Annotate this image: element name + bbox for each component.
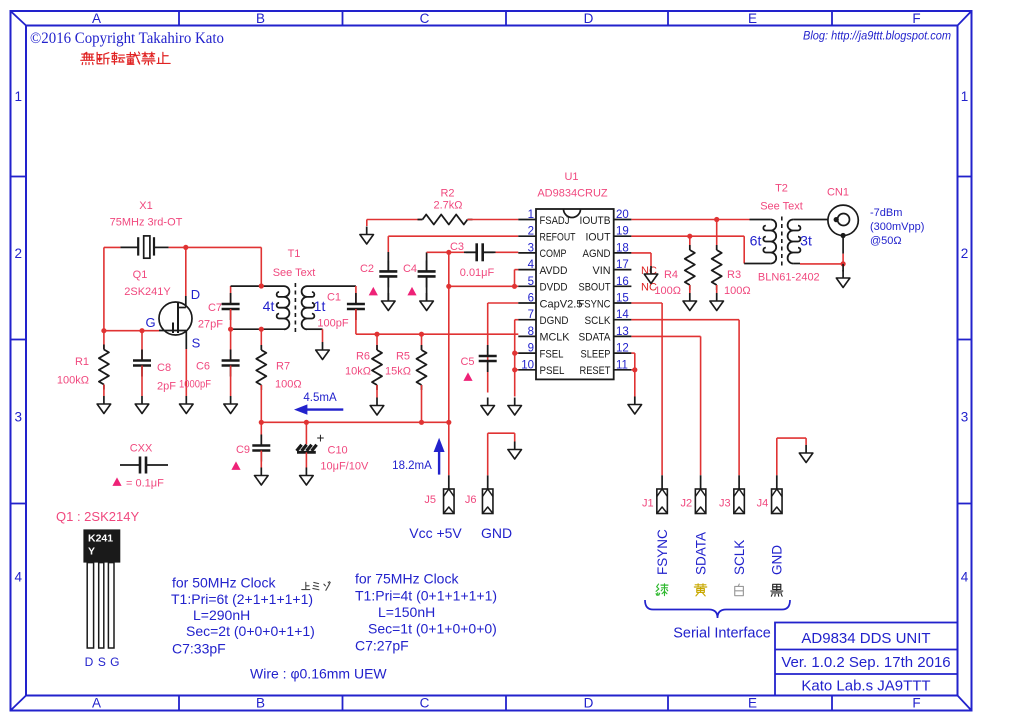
transformer T2 secondary 3t — [788, 220, 829, 264]
svg-text:3: 3 — [961, 410, 969, 425]
svg-text:16: 16 — [616, 276, 629, 288]
ground CN1 — [836, 270, 850, 288]
svg-text:100Ω: 100Ω — [724, 285, 751, 297]
connector J5 — [444, 489, 455, 514]
svg-text:PSEL: PSEL — [540, 365, 565, 377]
svg-text:SDATA: SDATA — [693, 532, 708, 575]
wire SDATA — [631, 336, 700, 475]
connector J3 — [734, 489, 745, 514]
svg-text:4: 4 — [14, 570, 22, 585]
resistor R6 — [372, 334, 382, 397]
svg-text:E: E — [748, 11, 757, 26]
svg-text:R5: R5 — [396, 351, 410, 363]
svg-text:U1: U1 — [564, 171, 578, 183]
triangle legend — [112, 477, 164, 489]
resistor R1 label — [57, 356, 89, 387]
wire DGND — [515, 320, 519, 397]
svg-text:27pF: 27pF — [198, 319, 223, 331]
wire FSYNC — [631, 303, 662, 475]
ground SLEEP-RESET — [628, 397, 642, 415]
triangle mark C2 — [369, 287, 378, 296]
resistor R7 — [256, 329, 266, 422]
svg-text:= 0.1μF: = 0.1μF — [126, 478, 164, 490]
svg-text:SDATA: SDATA — [579, 332, 612, 344]
svg-text:G: G — [145, 315, 155, 330]
connector J2 lead — [700, 475, 702, 489]
ground AGND — [644, 266, 658, 284]
node DVDD junction — [446, 284, 451, 289]
svg-text:X1: X1 — [139, 200, 152, 212]
svg-text:SLEEP: SLEEP — [581, 348, 611, 360]
wire crystal left — [104, 246, 121, 248]
wire IOUTB rail — [631, 219, 749, 221]
svg-text:RESET: RESET — [580, 365, 611, 377]
ground DGND — [508, 398, 522, 416]
svg-text:14: 14 — [616, 309, 629, 321]
svg-text:10μF/10V: 10μF/10V — [320, 461, 369, 473]
svg-text:Serial Interface: Serial Interface — [673, 626, 771, 642]
svg-text:C5: C5 — [460, 356, 474, 368]
svg-text:T1: T1 — [288, 248, 301, 260]
svg-text:3t: 3t — [800, 233, 812, 249]
capacitor C3 — [464, 243, 496, 261]
ground J6 — [508, 442, 522, 460]
node rail J5 — [446, 420, 451, 425]
svg-text:L=150nH: L=150nH — [378, 604, 435, 620]
svg-text:15: 15 — [616, 293, 629, 305]
wire CN1 shield down — [842, 236, 844, 254]
capacitor C1 label — [317, 292, 348, 330]
wire IOUT rail — [631, 235, 744, 237]
node R4 top junction — [687, 234, 692, 239]
node R5 junction — [419, 332, 424, 337]
svg-text:Q1 : 2SK214Y: Q1 : 2SK214Y — [56, 509, 139, 524]
ground Q1 source — [180, 396, 194, 414]
wire +5V vertical — [448, 252, 450, 422]
wire C3 to C4 — [427, 251, 449, 253]
svg-text:7: 7 — [528, 309, 534, 321]
wire J4 to ground — [777, 438, 806, 475]
capacitor C7 label — [198, 302, 223, 331]
resistor R4 label — [654, 269, 681, 297]
resistor R1 — [99, 331, 109, 396]
svg-text:Vcc +5V: Vcc +5V — [409, 525, 462, 541]
connector CN1 — [828, 205, 858, 238]
svg-text:2pF: 2pF — [157, 381, 176, 393]
svg-text:AD9834CRUZ: AD9834CRUZ — [537, 188, 608, 200]
svg-text:13: 13 — [616, 326, 629, 338]
svg-text:Kato Lab.s JA9TTT: Kato Lab.s JA9TTT — [801, 678, 930, 695]
svg-text:2: 2 — [14, 246, 22, 261]
svg-text:100kΩ: 100kΩ — [57, 375, 89, 387]
svg-text:IOUTB: IOUTB — [580, 215, 611, 227]
svg-text:J1: J1 — [642, 498, 654, 510]
svg-text:REFOUT: REFOUT — [540, 232, 576, 244]
svg-text:S: S — [192, 336, 201, 351]
svg-text:GND: GND — [770, 545, 785, 575]
node T1 top junction — [259, 283, 264, 288]
wire J5 — [448, 422, 450, 489]
node C3 junction — [446, 250, 451, 255]
svg-text:2: 2 — [528, 226, 534, 238]
wire CN1 shield red — [842, 254, 844, 264]
svg-text:6t: 6t — [750, 233, 762, 249]
svg-text:F: F — [912, 11, 920, 26]
svg-text:(300mVpp): (300mVpp) — [870, 221, 924, 233]
svg-text:5: 5 — [528, 276, 534, 288]
resistor R3 — [712, 220, 722, 294]
ground C5 — [481, 398, 495, 416]
svg-text:8: 8 — [528, 326, 534, 338]
svg-text:Wire : φ0.16mm UEW: Wire : φ0.16mm UEW — [250, 666, 387, 682]
svg-text:2.7kΩ: 2.7kΩ — [433, 200, 462, 212]
svg-text:AD9834 DDS UNIT: AD9834 DDS UNIT — [801, 630, 930, 647]
wire FSADJ rail right — [467, 219, 518, 221]
svg-text:R4: R4 — [664, 269, 678, 281]
svg-text:Blog: http://ja9ttt.blogspot.c: Blog: http://ja9ttt.blogspot.com — [803, 31, 951, 43]
wire J6 — [488, 433, 515, 489]
svg-text:C3: C3 — [450, 241, 464, 253]
triangle mark C4 — [407, 287, 416, 296]
title block — [775, 623, 958, 696]
transformer T2 core — [781, 217, 783, 267]
capacitor C6 label — [179, 361, 211, 391]
note winding mark — [302, 582, 330, 591]
svg-text:AGND: AGND — [583, 248, 611, 260]
svg-text:C7:33pF: C7:33pF — [172, 641, 226, 657]
capacitor C4 — [418, 252, 436, 301]
svg-text:C4: C4 — [403, 263, 417, 275]
svg-text:T1:Pri=4t (0+1+1+1+1): T1:Pri=4t (0+1+1+1+1) — [355, 588, 497, 604]
capacitor C10 — [297, 422, 317, 467]
svg-text:S: S — [98, 655, 106, 669]
svg-text:R7: R7 — [276, 361, 290, 373]
svg-text:1: 1 — [14, 89, 22, 104]
brace serial interface — [645, 600, 790, 618]
svg-text:C1: C1 — [327, 292, 341, 304]
svg-text:G: G — [110, 655, 119, 669]
svg-text:Sec=2t (0+0+0+1+1): Sec=2t (0+0+0+1+1) — [186, 623, 315, 639]
node CN1 junction — [841, 261, 846, 266]
transistor package drawing — [83, 529, 120, 648]
ground C10 — [300, 468, 314, 486]
svg-text:9: 9 — [528, 343, 534, 355]
node crystal-drain junction — [183, 245, 188, 250]
svg-text:J4: J4 — [757, 498, 769, 510]
op-amp U1 labels — [537, 171, 608, 200]
svg-text:100pF: 100pF — [317, 318, 348, 330]
svg-text:R6: R6 — [356, 351, 370, 363]
svg-text:100Ω: 100Ω — [275, 379, 302, 391]
capacitor C2 — [379, 236, 397, 301]
wire CN1 to ground — [842, 264, 844, 272]
svg-text:18.2mA: 18.2mA — [392, 460, 432, 472]
svg-text:3: 3 — [14, 410, 22, 425]
svg-text:DGND: DGND — [540, 315, 569, 327]
wire crystal left vertical — [103, 247, 105, 330]
svg-text:VIN: VIN — [593, 265, 611, 277]
svg-text:Sec=1t (0+1+0+0+0): Sec=1t (0+1+0+0+0) — [368, 621, 497, 637]
ground R4 — [683, 293, 697, 311]
svg-text:0.01μF: 0.01μF — [460, 267, 495, 279]
transformer T1 core — [294, 283, 296, 333]
ground C2 — [382, 293, 396, 311]
transformer T1 label — [273, 248, 316, 279]
arrow 4.5mA — [294, 404, 343, 414]
wire crystal right — [169, 246, 262, 248]
triangle mark C9 — [231, 461, 240, 470]
crystal X1 label — [110, 200, 183, 229]
wire FSADJ rail left — [367, 219, 423, 221]
capacitor C7 — [222, 286, 240, 329]
ground R1 — [97, 396, 111, 414]
connector J4 — [772, 489, 783, 514]
svg-text:See Text: See Text — [760, 201, 803, 213]
svg-text:B: B — [256, 11, 265, 26]
svg-text:-7dBm: -7dBm — [870, 207, 902, 219]
connector J6 — [482, 489, 493, 514]
label white wire — [735, 584, 744, 596]
svg-text:E: E — [748, 696, 757, 711]
svg-text:CapV2.5: CapV2.5 — [540, 298, 583, 310]
svg-text:L=290nH: L=290nH — [193, 607, 250, 623]
wire +5V bottom rail — [261, 421, 449, 423]
connector J1 — [657, 489, 668, 514]
transformer T2 primary 6t — [744, 220, 776, 264]
svg-text:FSYNC: FSYNC — [579, 298, 611, 310]
svg-text:6: 6 — [528, 293, 534, 305]
capacitor C5 — [479, 345, 497, 393]
svg-text:C: C — [420, 696, 430, 711]
svg-text:J3: J3 — [719, 498, 731, 510]
ground T1 secondary — [316, 342, 330, 360]
svg-text:2SK241Y: 2SK241Y — [124, 286, 171, 298]
arrow 18.2mA — [434, 438, 445, 475]
ground C4 — [420, 293, 434, 311]
svg-text:10kΩ: 10kΩ — [345, 366, 371, 378]
svg-text:J2: J2 — [680, 498, 692, 510]
node rail R5 — [419, 420, 424, 425]
resistor R2 — [418, 215, 473, 225]
wire FSEL stub — [515, 352, 519, 354]
svg-text:R2: R2 — [440, 188, 454, 200]
capacitor C1 — [347, 286, 365, 334]
node T1 bottom junction — [259, 327, 264, 332]
svg-text:Q1: Q1 — [133, 269, 148, 281]
svg-text:FSYNC: FSYNC — [655, 529, 670, 575]
svg-text:See Text: See Text — [273, 267, 316, 279]
svg-text:A: A — [92, 696, 101, 711]
crystal X1 — [120, 236, 168, 258]
wire IOUT down — [743, 236, 745, 263]
svg-text:4: 4 — [961, 570, 969, 585]
transistor Q1 — [159, 296, 192, 349]
wire MCLK rail — [356, 333, 518, 335]
svg-text:C6: C6 — [196, 361, 210, 373]
node PSEL junction — [512, 367, 517, 372]
svg-text:3: 3 — [528, 242, 534, 254]
resistor R6 label — [345, 351, 371, 378]
triangle mark C5 — [463, 372, 472, 381]
svg-text:19: 19 — [616, 226, 629, 238]
svg-text:F: F — [912, 696, 920, 711]
IC U1 AD9834CRUZ — [518, 209, 631, 379]
node R6 junction — [374, 332, 379, 337]
svg-text:11: 11 — [616, 359, 628, 371]
svg-text:15kΩ: 15kΩ — [385, 366, 411, 378]
ground J4 — [799, 445, 813, 463]
capacitor C6 — [222, 329, 240, 396]
svg-text:J5: J5 — [424, 494, 436, 506]
svg-text:R3: R3 — [727, 269, 741, 281]
svg-text:20: 20 — [616, 209, 629, 221]
node gate-R1 junction — [101, 328, 106, 333]
note 50MHz clock — [171, 575, 315, 657]
svg-text:100Ω: 100Ω — [654, 285, 681, 297]
svg-text:SCLK: SCLK — [585, 315, 612, 327]
resistor R5 label — [385, 351, 411, 378]
ground R3 — [710, 293, 724, 311]
node gate-C8 junction — [139, 328, 144, 333]
label output level — [870, 207, 924, 247]
connector J4 lead — [776, 475, 778, 489]
wire AVDD branch — [515, 270, 519, 287]
svg-text:FSADJ: FSADJ — [540, 215, 570, 227]
svg-text:for 50MHz Clock: for 50MHz Clock — [172, 575, 276, 591]
svg-text:A: A — [92, 11, 101, 26]
wire FSADJ down — [366, 220, 368, 227]
svg-text:4t: 4t — [263, 298, 275, 314]
svg-text:SCLK: SCLK — [732, 540, 747, 575]
svg-text:@50Ω: @50Ω — [870, 235, 902, 247]
resistor R2 label — [433, 188, 462, 212]
svg-text:CN1: CN1 — [827, 187, 849, 199]
svg-text:T2: T2 — [775, 183, 788, 195]
svg-text:IOUT: IOUT — [586, 232, 611, 244]
transformer T2 label — [760, 183, 803, 213]
label green wire — [656, 584, 668, 596]
connector J2 — [695, 489, 706, 514]
svg-text:D: D — [584, 696, 594, 711]
svg-text:C10: C10 — [328, 445, 348, 457]
note 75MHz clock — [355, 571, 497, 654]
svg-text:C8: C8 — [157, 362, 171, 374]
svg-text:12: 12 — [616, 343, 629, 355]
svg-text:©2016 Copyright Takahiro Kato: ©2016 Copyright Takahiro Kato — [30, 30, 224, 47]
node C7-C6 junction — [228, 327, 233, 332]
node AVDD junction — [512, 284, 517, 289]
node rail C10 — [304, 420, 309, 425]
svg-text:+: + — [316, 431, 324, 446]
resistor R5 — [417, 334, 427, 422]
svg-text:10: 10 — [521, 359, 534, 371]
svg-text:SBOUT: SBOUT — [579, 282, 611, 294]
svg-text:for 75MHz Clock: for 75MHz Clock — [355, 571, 459, 587]
svg-text:FSEL: FSEL — [540, 348, 564, 360]
svg-text:R1: R1 — [75, 356, 89, 368]
svg-text:1: 1 — [961, 89, 969, 104]
svg-text:C7:27pF: C7:27pF — [355, 638, 409, 654]
svg-text:1t: 1t — [314, 298, 326, 314]
node R3 top junction — [714, 217, 719, 222]
svg-text:C: C — [420, 11, 430, 26]
svg-text:D: D — [191, 287, 200, 302]
ground C6 — [224, 396, 238, 414]
svg-text:T1:Pri=6t (2+1+1+1+1): T1:Pri=6t (2+1+1+1+1) — [171, 591, 313, 607]
wire to T1 top — [260, 247, 262, 286]
connector J1 lead — [661, 475, 663, 489]
svg-text:CXX: CXX — [130, 443, 153, 455]
node FSEL junction — [512, 351, 517, 356]
label yellow wire — [694, 584, 706, 596]
svg-text:K241: K241 — [88, 533, 113, 545]
transformer T1 primary 4t — [231, 286, 290, 329]
wire C3 left — [449, 251, 464, 253]
resistor R7 label — [275, 361, 302, 391]
connector J3 lead — [738, 475, 740, 489]
svg-text:1000pF: 1000pF — [179, 379, 211, 391]
svg-text:Ver. 1.0.2 Sep. 17th 2016: Ver. 1.0.2 Sep. 17th 2016 — [781, 654, 950, 671]
capacitor C3 label — [450, 241, 495, 279]
svg-text:C9: C9 — [236, 444, 250, 456]
resistor R3 label — [724, 269, 751, 297]
svg-text:D: D — [85, 655, 94, 669]
wire AGND — [631, 253, 651, 266]
svg-text:GND: GND — [481, 525, 512, 541]
capacitor C10 label — [320, 445, 369, 473]
ground C9 — [255, 468, 269, 486]
wire PSEL stub — [515, 369, 519, 371]
svg-text:18: 18 — [616, 242, 629, 254]
svg-text:DVDD: DVDD — [540, 282, 568, 294]
transistor Q1 label — [124, 269, 171, 298]
svg-text:COMP: COMP — [540, 248, 567, 260]
svg-text:4.5mA: 4.5mA — [303, 392, 337, 404]
svg-text:D: D — [584, 11, 594, 26]
ground FSADJ — [360, 227, 374, 245]
node RESET junction — [632, 367, 637, 372]
capacitor C9 — [252, 422, 270, 467]
wire T2 sec bottom — [800, 263, 843, 265]
svg-text:C2: C2 — [360, 263, 374, 275]
ground C8 — [135, 396, 149, 414]
wire REFOUT rail — [388, 235, 518, 237]
label D S G — [85, 655, 120, 669]
no-reproduction notice — [81, 52, 170, 65]
node rail R7-C9 — [259, 420, 264, 425]
wire DVDD rail — [449, 285, 519, 287]
wire CapV2.5 — [488, 303, 519, 352]
wire SLEEP-RESET — [631, 353, 634, 396]
wire gate rail — [104, 330, 159, 332]
wire T1 secondary ground — [322, 329, 324, 342]
svg-text:1: 1 — [528, 209, 534, 221]
wire C3 right — [496, 251, 519, 253]
transformer T1 secondary 1t — [302, 286, 356, 329]
wire SCLK — [631, 320, 739, 476]
svg-text:Y: Y — [88, 546, 95, 558]
wire drain — [185, 247, 187, 296]
svg-text:4: 4 — [528, 259, 535, 271]
svg-text:17: 17 — [616, 259, 629, 271]
ground R6 — [370, 398, 384, 416]
svg-text:J6: J6 — [465, 494, 477, 506]
capacitor C8 — [133, 331, 151, 396]
svg-text:75MHz 3rd-OT: 75MHz 3rd-OT — [110, 217, 183, 229]
resistor R4 — [685, 236, 695, 293]
svg-text:AVDD: AVDD — [540, 265, 568, 277]
capacitor C8 label — [157, 362, 176, 393]
